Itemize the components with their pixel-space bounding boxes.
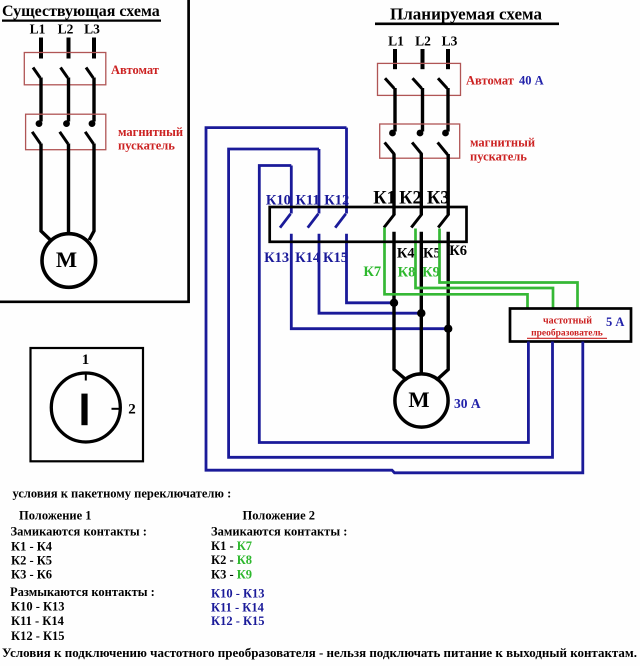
breaker pole 1 blade (existing) xyxy=(33,68,40,78)
position 2 label xyxy=(128,402,136,418)
contactor pole 3 blade (existing) xyxy=(85,132,93,144)
svg-text:К1 - К4: К1 - К4 xyxy=(11,540,53,554)
note: position 2 header xyxy=(243,509,316,523)
contactor pole 1 blade (existing) xyxy=(32,132,40,144)
contact K12 top stub xyxy=(345,128,348,214)
svg-text:М: М xyxy=(408,387,429,412)
svg-text:К4: К4 xyxy=(397,245,415,261)
svg-text:Автомат: Автомат xyxy=(111,63,159,77)
label K2 xyxy=(399,189,422,209)
svg-text:Существующая схема: Существующая схема xyxy=(2,3,160,20)
breaker box (Автомат 40 А, planned) xyxy=(378,63,461,95)
contactor pole 3 contact dot xyxy=(89,120,96,127)
contact K11 blade xyxy=(308,214,319,228)
breaker pole 2 blade (existing) xyxy=(61,68,68,78)
svg-text:L1: L1 xyxy=(388,34,404,49)
label K10 xyxy=(266,192,291,208)
node L2 (planned) xyxy=(415,34,431,49)
contactor pole 2 contact dot (planned) xyxy=(417,130,424,137)
contact K10 blade xyxy=(280,214,291,228)
wire K9 to frequency converter xyxy=(440,229,578,310)
package switch enclosure xyxy=(31,348,144,461)
node L1 (existing) xyxy=(30,22,46,37)
junction dot K6/K13 xyxy=(444,325,452,333)
note row K1-K4 xyxy=(11,540,53,554)
svg-text:К1 - К7: К1 - К7 xyxy=(211,539,252,553)
note: closing contacts (pos 1) xyxy=(11,525,147,539)
wire contactor to contact K1 xyxy=(392,154,395,215)
wire breaker to contactor pole 2 (planned) xyxy=(421,88,424,132)
contactor pole 2 contact dot xyxy=(63,120,70,127)
label K3 xyxy=(427,189,450,209)
note: closing contacts (pos 2) xyxy=(211,525,347,539)
wire K4 to motor xyxy=(394,232,405,379)
wire L3 feed (existing) xyxy=(92,38,96,59)
frequency converter box xyxy=(510,309,631,342)
svg-text:К3: К3 xyxy=(427,189,450,209)
label K13 xyxy=(264,250,289,266)
position 2 tick xyxy=(112,408,121,410)
note row K11-K14 xyxy=(11,614,65,628)
svg-text:1: 1 xyxy=(82,352,90,368)
svg-text:К9: К9 xyxy=(422,265,440,281)
contactor pole 3 contact dot (planned) xyxy=(442,130,449,137)
note row K12-K15 xyxy=(11,629,65,643)
svg-text:пускатель: пускатель xyxy=(118,139,175,153)
wire breaker to contactor pole 3 xyxy=(92,78,95,122)
contactor pole 1 contact dot (planned) xyxy=(389,130,396,137)
wire breaker to contactor pole 2 xyxy=(67,78,70,122)
svg-text:К2 - К5: К2 - К5 xyxy=(11,554,52,568)
wire K15 to junction on K4 line xyxy=(347,234,395,303)
note row K10-K13 xyxy=(11,600,65,614)
svg-text:условия к пакетному переключат: условия к пакетному переключателю : xyxy=(13,487,232,501)
note row K11-K14 (pos2) xyxy=(211,601,265,615)
wire contactor to motor phase 3 xyxy=(89,144,94,241)
wire contactor to contact K2 xyxy=(420,154,423,215)
wire L2 feed (planned) xyxy=(421,49,425,69)
svg-text:К14: К14 xyxy=(295,250,320,266)
contactor pole 2 blade (existing) xyxy=(60,132,68,144)
svg-text:L3: L3 xyxy=(442,34,458,49)
svg-text:40 А: 40 А xyxy=(519,74,544,88)
breaker pole 2 blade (planned) xyxy=(413,78,422,88)
contactor pole 1 contact dot xyxy=(36,120,43,127)
label: Автомат xyxy=(466,74,514,88)
svg-text:L2: L2 xyxy=(415,34,431,49)
svg-text:L3: L3 xyxy=(84,22,100,37)
svg-text:2: 2 xyxy=(128,402,136,418)
svg-text:К6: К6 xyxy=(449,243,467,259)
wire converter out 1 to K10 loop xyxy=(259,166,528,443)
node L1 (planned) xyxy=(388,34,404,49)
svg-text:К3 - К9: К3 - К9 xyxy=(211,568,252,582)
label K8 xyxy=(398,265,416,281)
svg-text:5 А: 5 А xyxy=(606,315,624,329)
svg-text:К11 - К14: К11 - К14 xyxy=(11,614,65,628)
svg-text:К10 - К13: К10 - К13 xyxy=(211,587,265,601)
contactor pole 3 blade (planned) xyxy=(438,142,448,154)
value label: 30 А xyxy=(454,396,481,411)
package switch handle xyxy=(81,394,87,426)
svg-text:частотный: частотный xyxy=(543,316,592,327)
label: магнитный пускатель (planned) xyxy=(470,136,535,164)
svg-text:К7: К7 xyxy=(363,264,381,280)
breaker pole 3 blade (existing) xyxy=(86,68,93,78)
wire L2 feed (existing) xyxy=(67,38,71,59)
motor M (existing) xyxy=(42,234,96,288)
note row K3-K9 xyxy=(211,568,252,582)
wire breaker to contactor pole 1 xyxy=(39,78,42,122)
breaker box (Автомат, existing) xyxy=(24,53,106,85)
wire L3 feed (planned) xyxy=(446,49,450,69)
note: position 1 header xyxy=(19,509,92,523)
wire K6 to motor xyxy=(438,232,448,379)
node L3 (planned) xyxy=(442,34,458,49)
contact K12 blade xyxy=(335,214,346,228)
package switch dial xyxy=(51,373,120,442)
breaker pole 1 blade (planned) xyxy=(385,78,394,88)
svg-text:К3 - К6: К3 - К6 xyxy=(11,568,52,582)
label: магнитный пускатель (existing) xyxy=(118,125,183,153)
label K9 xyxy=(422,265,440,281)
svg-text:К12 - К15: К12 - К15 xyxy=(11,629,65,643)
wire breaker to contactor pole 1 (planned) xyxy=(393,88,396,132)
svg-text:L1: L1 xyxy=(30,22,46,37)
svg-text:преобразователь: преобразователь xyxy=(531,328,603,339)
label K7 xyxy=(363,264,381,280)
wire breaker to contactor pole 3 (planned) xyxy=(446,88,449,132)
contact K2 blade xyxy=(411,214,422,228)
svg-text:К12 - К15: К12 - К15 xyxy=(211,614,265,628)
note row K10-K13 (pos2) xyxy=(211,587,265,601)
contact K10 top stub xyxy=(290,166,293,214)
wire contactor to contact K3 xyxy=(447,154,450,215)
breaker pole 3 blade (planned) xyxy=(438,78,447,88)
junction dot K4/K15 xyxy=(390,299,398,307)
position 1 label xyxy=(82,352,90,368)
contactor pole 2 blade (planned) xyxy=(412,142,422,154)
wire contactor to motor phase 1 xyxy=(41,144,51,241)
contact K11 top stub xyxy=(318,149,321,214)
svg-text:К2 - К8: К2 - К8 xyxy=(211,553,252,567)
svg-text:магнитный: магнитный xyxy=(470,136,535,150)
wire converter out 2 to K11 loop xyxy=(229,149,553,457)
svg-text:Замикаются контакты :: Замикаются контакты : xyxy=(211,525,347,539)
svg-text:пускатель: пускатель xyxy=(470,150,527,164)
value label: 40 А xyxy=(519,74,544,88)
label K1 xyxy=(373,189,396,209)
note row K1-K7 xyxy=(211,539,252,553)
label K15 xyxy=(323,250,348,266)
svg-text:Автомат: Автомат xyxy=(466,74,514,88)
wire K13 to junction on K6 line xyxy=(291,234,447,329)
contactor box (магнитный пускатель, planned) xyxy=(380,124,460,158)
title: Существующая схема xyxy=(2,3,161,21)
wire L1 feed (existing) xyxy=(39,38,43,59)
svg-text:К11 - К14: К11 - К14 xyxy=(211,601,265,615)
note row K3-K6 xyxy=(11,568,52,582)
svg-text:Условия к подключению частотн: Условия к подключению частотного преобра… xyxy=(2,646,637,660)
wire L1 feed (planned) xyxy=(393,49,397,69)
note row K2-K8 xyxy=(211,553,252,567)
junction dot K5/K14 xyxy=(417,309,425,317)
note row K2-K5 xyxy=(11,554,52,568)
svg-text:К1: К1 xyxy=(373,189,396,209)
wire K7 to frequency converter xyxy=(385,228,528,310)
label K14 xyxy=(295,250,320,266)
label K6 xyxy=(449,243,467,259)
contact K1 blade xyxy=(384,214,395,228)
enclosure box of existing scheme xyxy=(0,0,189,302)
svg-text:К15: К15 xyxy=(323,250,348,266)
label K4 xyxy=(397,245,415,261)
contact block rectangle xyxy=(270,207,467,242)
svg-text:Замикаются контакты :: Замикаются контакты : xyxy=(11,525,147,539)
note: conditions for package switch xyxy=(13,487,232,501)
note row K12-K15 (pos2) xyxy=(211,614,265,628)
value label: 5 А xyxy=(606,315,624,329)
svg-text:магнитный: магнитный xyxy=(118,125,183,139)
svg-text:Размыкаются контакты :: Размыкаются контакты : xyxy=(10,585,155,599)
label: Автомат (existing) xyxy=(111,63,159,77)
svg-text:К5: К5 xyxy=(423,245,441,261)
position 1 tick xyxy=(85,373,87,381)
wire converter out 3 to K12 loop xyxy=(206,128,583,473)
svg-text:Планируемая схема: Планируемая схема xyxy=(390,5,542,24)
title: Планируемая схема xyxy=(375,5,559,24)
note: converter connection warning xyxy=(2,646,637,660)
contactor box (магнитный пускатель, existing) xyxy=(26,114,106,150)
wire contactor to motor phase 2 xyxy=(67,144,70,235)
node L2 (existing) xyxy=(58,22,74,37)
wire K5 to motor xyxy=(420,232,423,375)
node L3 (existing) xyxy=(84,22,100,37)
svg-text:L2: L2 xyxy=(58,22,74,37)
motor M (planned) xyxy=(395,374,448,427)
svg-text:К13: К13 xyxy=(264,250,289,266)
svg-text:Положение 1: Положение 1 xyxy=(19,509,92,523)
note: opening contacts xyxy=(10,585,155,599)
label K12 xyxy=(324,192,349,208)
wire K14 to junction on K5 line xyxy=(319,234,421,313)
contact K3 blade xyxy=(438,214,449,228)
svg-text:М: М xyxy=(56,247,77,272)
label K5 xyxy=(423,245,441,261)
svg-text:К2: К2 xyxy=(399,189,422,209)
svg-text:30 А: 30 А xyxy=(454,396,481,411)
svg-text:К10 - К13: К10 - К13 xyxy=(11,600,65,614)
svg-text:К8: К8 xyxy=(398,265,416,281)
svg-text:Положение 2: Положение 2 xyxy=(243,509,316,523)
label K11 xyxy=(295,192,319,208)
wire K8 to frequency converter xyxy=(416,229,554,310)
contactor pole 1 blade (planned) xyxy=(385,142,395,154)
